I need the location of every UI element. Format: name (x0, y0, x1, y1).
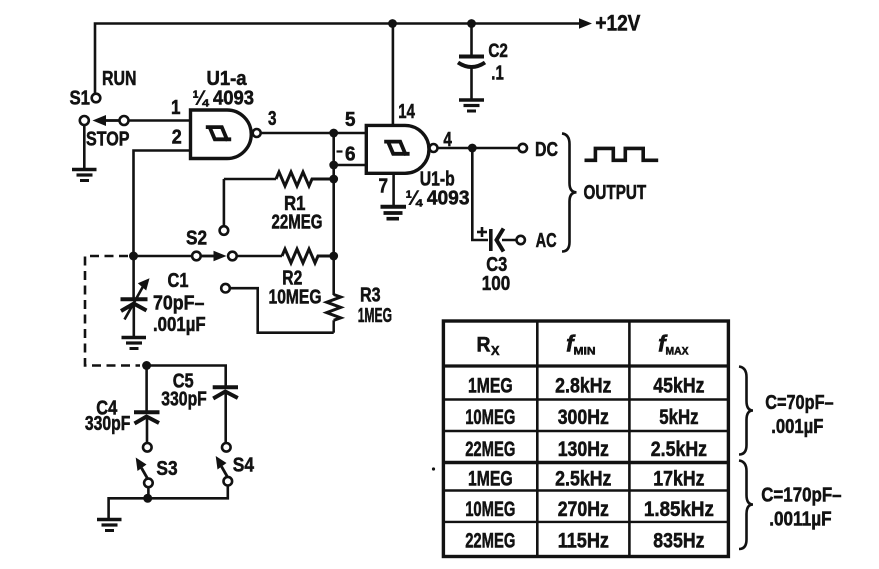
table row4 (468, 467, 705, 491)
arrowhead +12V rail (579, 18, 592, 28)
label pin 14 (398, 100, 415, 123)
label 100 (482, 272, 510, 295)
table header Rx (477, 334, 500, 359)
svg-text:¼ 4093: ¼ 4093 (406, 187, 470, 210)
label pin 5 (345, 108, 356, 131)
svg-text:OUTPUT: OUTPUT (584, 181, 647, 204)
wire U1-a pin3 to node bus (261, 132, 334, 135)
ground below U1-b pin 7 (381, 207, 407, 219)
label 1MEG (R3) (358, 304, 392, 327)
svg-text:10MEG: 10MEG (465, 405, 515, 429)
table group separator (443, 461, 728, 464)
table row2 (465, 405, 698, 429)
label R3 (360, 284, 381, 307)
switch S4 arm arrow (216, 456, 228, 477)
label pin 7 (379, 175, 389, 198)
svg-text:330pF: 330pF (85, 412, 130, 435)
table row5 (465, 497, 714, 521)
svg-text:S3: S3 (156, 457, 177, 480)
label RUN (102, 67, 137, 90)
wire U1-b pin 5 (334, 132, 367, 135)
ground bottom left (97, 520, 122, 531)
op-amp U1-a NAND gate body (191, 110, 252, 159)
capacitor C1 (variable) (121, 256, 150, 336)
table column line 2 (628, 321, 631, 557)
brace table top group (739, 367, 753, 455)
node junction pin5 (329, 129, 338, 138)
switch S1 STOP contact (80, 116, 89, 125)
capacitor C2 (458, 57, 485, 68)
table row6 (465, 529, 704, 553)
svg-text:2.5kHz: 2.5kHz (555, 467, 611, 491)
wire +12V top rail (95, 24, 586, 94)
square wave symbol (585, 148, 659, 160)
label C3 plus (477, 227, 487, 237)
svg-text:17kHz: 17kHz (653, 467, 704, 491)
svg-text:.1: .1 (491, 62, 504, 85)
switch S2 pole contact (192, 252, 201, 261)
svg-text:5kHz: 5kHz (659, 405, 698, 429)
label 330pF (C4) (85, 412, 130, 435)
node junction C4/C5 feed (142, 361, 151, 370)
wire U1-a pin 2 from bus (134, 151, 191, 254)
tick before pin 6 label (337, 150, 343, 152)
wire R1 left lead down to contact (223, 179, 226, 226)
label 330pF (C5) (161, 388, 207, 411)
terminal AC (517, 236, 525, 244)
label S3 (156, 457, 177, 480)
label R2 (282, 267, 302, 290)
schmitt hysteresis glyph U1-b (384, 142, 409, 154)
svg-text:1MEG: 1MEG (468, 374, 513, 398)
wire S1 STOP to ground (83, 125, 86, 168)
svg-text:14: 14 (398, 100, 415, 123)
label pin 2 (172, 126, 182, 149)
switch S2 contact R2 (228, 252, 237, 261)
svg-text:10MEG: 10MEG (465, 497, 515, 521)
switch S1 pole contact (120, 116, 129, 125)
label pin 3 (268, 107, 277, 130)
label OUTPUT (584, 181, 647, 204)
switch S2 contact R3 (221, 284, 230, 293)
svg-text:R: R (477, 334, 491, 357)
label .001uF (153, 313, 206, 336)
svg-text:DC: DC (535, 138, 558, 161)
capacitor C4 (134, 412, 160, 443)
ground below S1 (72, 170, 97, 181)
svg-text:2.5kHz: 2.5kHz (651, 437, 707, 461)
svg-text:1: 1 (171, 96, 181, 119)
table column line 1 (536, 321, 539, 557)
svg-text:330pF: 330pF (161, 388, 207, 411)
svg-text:S4: S4 (233, 454, 255, 477)
switch S3 top contact (143, 443, 152, 452)
capacitor C3 electrolytic (491, 229, 517, 252)
label S4 (233, 454, 255, 477)
svg-text:6: 6 (345, 143, 356, 166)
svg-text:MAX: MAX (666, 346, 690, 358)
svg-text:115Hz: 115Hz (558, 529, 609, 553)
svg-text:100: 100 (482, 272, 510, 295)
wire U1-b pin 6 (334, 164, 367, 167)
wire S3/S4 to ground bus (148, 486, 227, 499)
svg-text:.0011µF: .0011µF (769, 508, 831, 531)
label C2 (488, 41, 508, 62)
svg-text:5: 5 (345, 108, 356, 131)
wire pin2-bus junction to S2 pole (129, 252, 192, 261)
label U1-a (207, 67, 248, 90)
capacitor C5 (213, 387, 238, 443)
svg-text:22MEG: 22MEG (272, 211, 323, 234)
table row line 2 (443, 430, 728, 432)
label C=170pF- (761, 484, 841, 507)
switch S4 top contact (222, 443, 231, 452)
label 1/4 4093 (U1-a) (193, 87, 255, 110)
node junction R1 (329, 175, 338, 184)
wire feed to C4 (145, 366, 148, 411)
svg-text:1MEG: 1MEG (358, 304, 392, 327)
terminal DC (519, 144, 527, 152)
svg-text:835Hz: 835Hz (653, 529, 704, 553)
switch S3 bottom contact (144, 479, 153, 488)
svg-text:130Hz: 130Hz (558, 437, 609, 461)
svg-text:1.85kHz: 1.85kHz (644, 497, 714, 521)
label pin 6 (345, 143, 356, 166)
svg-text:AC: AC (536, 229, 557, 252)
svg-text:45kHz: 45kHz (653, 374, 704, 398)
label C3 (486, 253, 507, 276)
label 10MEG (269, 286, 322, 309)
resistor R1 (224, 172, 330, 186)
label S2 (186, 227, 207, 250)
wire ground bus left (109, 498, 149, 518)
label DC (535, 138, 558, 161)
label 22MEG (272, 211, 323, 234)
wire U1-b pin 7 to ground (392, 173, 395, 206)
label 1/4 4093 (U1-b) (406, 187, 470, 210)
wire S1 pole to U1-a pin 1 (129, 119, 191, 122)
svg-text:C1: C1 (168, 269, 189, 292)
svg-text:¼ 4093: ¼ 4093 (193, 87, 255, 110)
svg-text:S1: S1 (70, 87, 91, 110)
schmitt hysteresis glyph U1-a (206, 127, 231, 139)
label AC (536, 229, 557, 252)
node junction pin6 (329, 161, 338, 170)
node junction output (468, 144, 477, 153)
svg-text:S2: S2 (186, 227, 207, 250)
table header fMAX (658, 331, 689, 358)
svg-text:7: 7 (379, 175, 389, 198)
svg-text:270Hz: 270Hz (558, 497, 609, 521)
switch S4 bottom contact (224, 477, 233, 486)
label C5 (173, 370, 194, 393)
table row line 4 (443, 489, 728, 491)
ground below C2 (459, 100, 484, 111)
switch S2 wiper arrow (201, 251, 227, 262)
node junction rail-pin14 (388, 19, 397, 28)
svg-text:22MEG: 22MEG (465, 529, 515, 553)
label STOP (86, 128, 130, 151)
label 70pF- (153, 292, 204, 315)
wire S2 R3 contact to R3 bottom (230, 288, 334, 333)
svg-text:2: 2 (172, 126, 182, 149)
U1-a output bubble pin 3 (253, 129, 261, 137)
svg-text:C=170pF–: C=170pF– (761, 484, 841, 507)
svg-text:300Hz: 300Hz (558, 405, 609, 429)
table row line 1 (443, 398, 728, 400)
svg-text:10MEG: 10MEG (269, 286, 322, 309)
wire C2 top lead (470, 24, 473, 55)
wire U1-b pin 14 from rail (392, 24, 395, 126)
table header separator (443, 364, 728, 367)
table row3 (465, 437, 707, 461)
svg-text:22MEG: 22MEG (465, 437, 515, 461)
label .0011uF (769, 508, 831, 531)
svg-text:70pF–: 70pF– (153, 292, 204, 315)
node junction rail-C2 (467, 19, 476, 28)
stray mark (432, 467, 435, 470)
label S1 (70, 87, 91, 110)
switch S3 arm arrow (136, 458, 148, 479)
label C2 value .1 (491, 62, 504, 85)
wire feed to C5 (147, 366, 226, 386)
brace table bottom group (739, 461, 753, 550)
svg-text:2.8kHz: 2.8kHz (555, 374, 611, 398)
switch S1 RUN contact (92, 94, 101, 103)
label U1-b (420, 168, 455, 191)
svg-text:3: 3 (268, 107, 277, 130)
svg-text:+12V: +12V (595, 11, 640, 36)
label C=70pF- (765, 391, 833, 414)
label pin 4 (443, 128, 452, 151)
wire U1-b output to DC (438, 147, 519, 150)
table header fMIN (566, 331, 596, 358)
resistor R2 (237, 249, 330, 263)
table row1 (468, 374, 705, 398)
wire output down to AC branch (472, 148, 488, 240)
wire C2 bottom lead (470, 67, 473, 99)
label pin 1 (171, 96, 181, 119)
svg-text:MIN: MIN (574, 346, 596, 358)
label C1 (168, 269, 189, 292)
svg-text:C=70pF–: C=70pF– (765, 391, 833, 414)
label +12V (595, 11, 640, 36)
brace output (562, 133, 577, 251)
svg-text:X: X (491, 343, 500, 358)
label C4 (96, 397, 117, 420)
label .001uF (771, 415, 823, 438)
switch S1 wiper arrow (93, 115, 120, 126)
ground below C1 (122, 338, 147, 349)
node junction R2 (329, 252, 338, 261)
svg-text:STOP: STOP (86, 128, 130, 151)
resistor R3 (327, 295, 341, 333)
wire dashed link junction to C4/C5 feed (85, 256, 140, 366)
U1-b output bubble pin 4 (430, 144, 438, 152)
svg-text:1MEG: 1MEG (468, 467, 513, 491)
svg-text:.001µF: .001µF (153, 313, 206, 336)
wire node bus vertical (332, 133, 335, 295)
node junction ground bus (143, 494, 152, 503)
switch S2 contact R1 (220, 226, 229, 235)
table row line 5 (443, 521, 728, 523)
label R1 (284, 192, 306, 215)
table frequency chart border (443, 321, 728, 557)
svg-text:.001µF: .001µF (771, 415, 823, 438)
svg-text:RUN: RUN (102, 67, 137, 90)
svg-text:C2: C2 (488, 41, 508, 62)
op-amp U1-b NAND gate body (366, 125, 429, 173)
